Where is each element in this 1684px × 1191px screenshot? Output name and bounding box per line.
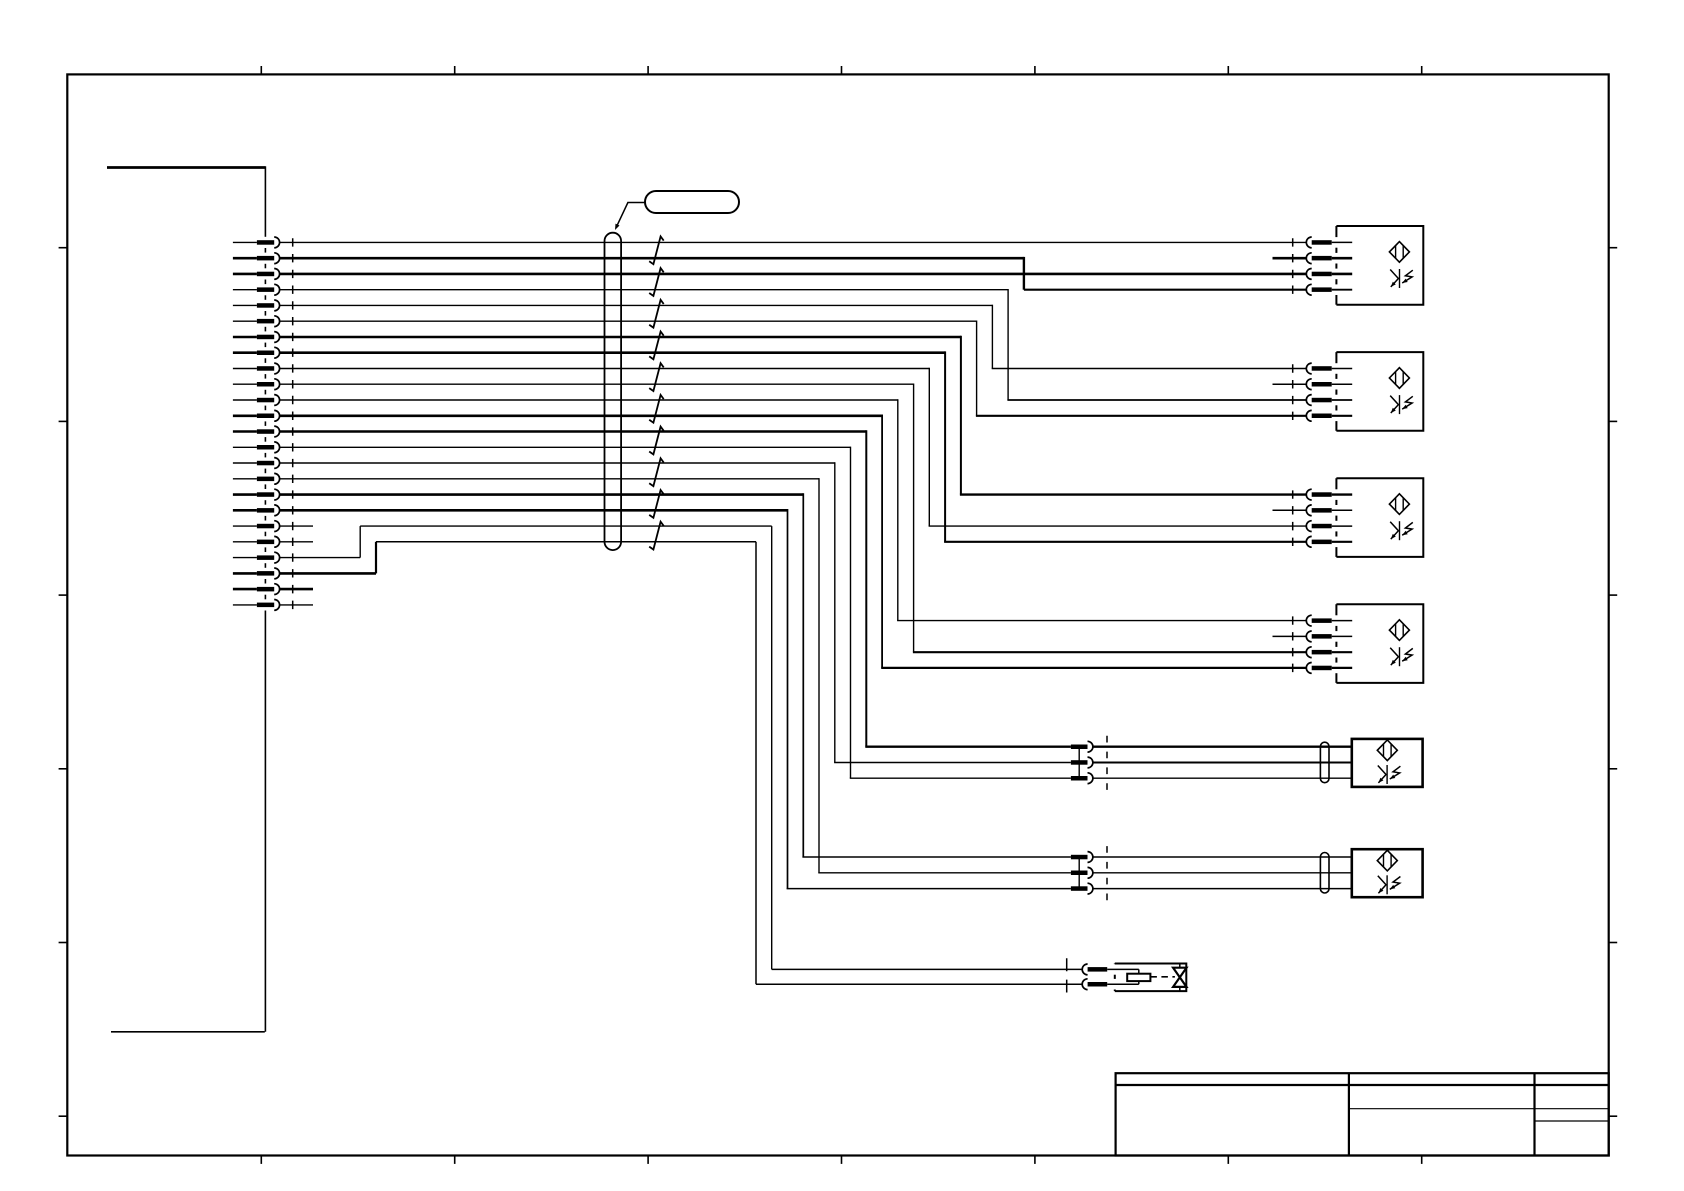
sensor B3 photoelectric receiver symbol xyxy=(1390,521,1413,540)
wire W3 J1.3 to B1.3 xyxy=(280,273,1307,276)
sensor B2 photoelectric receiver symbol xyxy=(1390,395,1413,414)
sensor B1 box outline xyxy=(1336,226,1423,305)
sensor B2 box left edge xyxy=(1335,352,1337,431)
sensor B1 proximity diamond symbol xyxy=(1389,242,1409,263)
wire W10 J1.10 to B4.3 xyxy=(280,384,1307,653)
inline connector B5 pin 2 terminal xyxy=(1071,757,1093,768)
wire W18 J1.18 to B6.3 xyxy=(280,509,1352,889)
wire W12 J1.12 to B4.4 xyxy=(280,415,1307,668)
inline connector B6 mating face dashed line xyxy=(1106,846,1108,903)
wire W13 J1.13 to B5.1 xyxy=(280,430,1352,747)
sensor B4 pin 4 terminal xyxy=(1306,663,1352,674)
connector J1 pin 9 terminal xyxy=(233,363,280,374)
valve Y1 box left edge xyxy=(1114,964,1116,992)
sensor B6 box outline xyxy=(1352,849,1423,897)
valve Y1 pin 1 terminal xyxy=(1082,964,1107,975)
inline connector B6 pin 3 terminal xyxy=(1071,883,1093,894)
sensor B2 pin 4 terminal xyxy=(1306,410,1352,421)
wire W1 J1.1 to B1.1 xyxy=(280,241,1307,243)
inline connector B6 pin 2 terminal xyxy=(1071,867,1093,878)
sensor B3 pin 2 stub wire xyxy=(1273,509,1307,511)
inline connector B5 mating face dashed line xyxy=(1106,736,1108,793)
balloon leader arrowhead xyxy=(615,224,620,230)
label balloon xyxy=(645,191,739,213)
connector J1 mating face dashed line xyxy=(292,238,294,609)
connector J1 pin 14 terminal xyxy=(233,442,280,453)
wire stub J1.24 xyxy=(280,604,313,606)
sensor B2 proximity diamond symbol xyxy=(1389,368,1409,389)
sensor B3 box left edge xyxy=(1335,478,1337,557)
wire W2 J1.2 to B1.4 xyxy=(280,257,1307,290)
sensor B4 pin 2 terminal xyxy=(1306,631,1352,642)
sensor B4 pin 3 terminal xyxy=(1306,647,1352,658)
valve Y1 coil body xyxy=(1127,974,1150,981)
valve Y1 pin 2 internal wire xyxy=(1107,983,1139,985)
sensor B1 pin 4 terminal xyxy=(1306,284,1352,295)
connector J1 pin 3 terminal xyxy=(233,269,280,280)
valve Y1 pin 1 internal wire xyxy=(1107,968,1139,970)
sensor B5 proximity diamond symbol xyxy=(1377,740,1397,761)
connector J1 pin 6 terminal xyxy=(233,316,280,327)
connector J1 pin 23 terminal xyxy=(233,584,280,595)
sensor B1 pin 1 terminal xyxy=(1306,237,1352,248)
wire W6 J1.6 to B2.4 xyxy=(280,321,1307,416)
connector J1 body right edge xyxy=(264,166,266,1032)
connector J1 body top edge xyxy=(107,166,265,169)
inline connector B6 pin 1 terminal xyxy=(1071,852,1093,863)
title block xyxy=(1116,1073,1609,1155)
connector J1 pin 2 terminal xyxy=(233,253,280,264)
wire W9 J1.9 to B3.3 xyxy=(280,368,1307,526)
cable loom oval xyxy=(605,233,622,550)
sensor B1 connector dashed line xyxy=(1292,238,1294,294)
sensor B2 connector dashed line xyxy=(1292,364,1294,420)
sensor B3 proximity diamond symbol xyxy=(1389,494,1409,515)
connector J1 body bottom edge xyxy=(111,1031,265,1033)
sensor B3 connector dashed line xyxy=(1292,490,1294,546)
connector J1 pin 11 terminal xyxy=(233,395,280,406)
inline connector B5 pin 1 terminal xyxy=(1071,741,1093,752)
sensor B2 pin 3 terminal xyxy=(1306,395,1352,406)
sensor B5 photoelectric receiver symbol xyxy=(1378,765,1401,784)
sensor B6 cable grommet oval xyxy=(1320,853,1329,894)
connector J1 pin 8 terminal xyxy=(233,347,280,358)
sensor B4 box left edge xyxy=(1335,604,1337,683)
inline connector B5 joining line xyxy=(1078,747,1080,779)
sensor B1 pin 3 terminal xyxy=(1306,269,1352,280)
sensor B1 pin 2 stub wire xyxy=(1273,257,1307,260)
connector J1 pin 16 terminal xyxy=(233,473,280,484)
wire W4 J1.4 to B2.3 xyxy=(280,289,1307,400)
connector J1 pin 24 terminal xyxy=(233,600,280,611)
sensor B4 photoelectric receiver symbol xyxy=(1390,647,1413,666)
connector J1 pin 20 terminal xyxy=(233,536,280,547)
wire group slash marks at loom exit xyxy=(649,236,664,549)
connector J1 pin 13 terminal xyxy=(233,426,280,437)
sensor B1 pin 2 terminal xyxy=(1306,253,1352,264)
sensor B5 box outline xyxy=(1352,739,1423,787)
valve Y1 coil loop vertical xyxy=(1138,969,1140,984)
connector J1 pin 5 terminal xyxy=(233,300,280,311)
frame zone tick marks left edge xyxy=(59,248,68,1116)
sensor B1 box left edge xyxy=(1335,226,1337,305)
valve Y1 actuation dashed link xyxy=(1150,976,1175,978)
frame zone tick marks right edge xyxy=(1609,248,1618,1116)
sensor B2 pin 1 terminal xyxy=(1306,363,1352,374)
balloon leader line xyxy=(616,203,645,227)
wire W16 J1.16 to B6.2 xyxy=(280,478,1352,873)
sensor B4 connector dashed line xyxy=(1292,616,1294,672)
sensor B3 pin 1 terminal xyxy=(1306,489,1352,500)
sensor B6 photoelectric receiver symbol xyxy=(1378,875,1401,894)
inline connector B6 joining line xyxy=(1078,857,1080,889)
frame zone tick marks top edge xyxy=(261,66,1421,74)
connector J1 pin 17 terminal xyxy=(233,489,280,500)
sensor B3 pin 3 terminal xyxy=(1306,521,1352,532)
connector J1 pin 21 terminal xyxy=(233,552,280,563)
wire W22 J1.22 to valve Y1.2 xyxy=(280,542,1082,984)
sensor B5 cable grommet oval xyxy=(1320,742,1329,783)
wire W5 J1.5 to B2.1 xyxy=(280,305,1307,369)
sensor B4 box outline xyxy=(1336,604,1423,683)
wire W8 J1.8 to B3.4 xyxy=(280,351,1307,541)
connector J1 pin 15 terminal xyxy=(233,458,280,469)
sensor B1 photoelectric receiver symbol xyxy=(1390,269,1413,288)
wire W14 J1.14 to B5.3 xyxy=(280,447,1352,779)
wire W15 J1.15 to B5.2 xyxy=(280,462,1352,762)
sensor B3 box outline xyxy=(1336,478,1423,557)
sensor B2 pin 2 terminal xyxy=(1306,379,1352,390)
connector J1 pin 4 terminal xyxy=(233,284,280,295)
sensor B4 pin 1 terminal xyxy=(1306,615,1352,626)
connector J1 pin 12 terminal xyxy=(233,410,280,421)
wire stub J1.19 xyxy=(280,525,313,527)
valve Y1 valve hourglass symbol xyxy=(1173,964,1186,992)
valve Y1 connector dashed line xyxy=(1066,958,1068,993)
connector J1 pin 18 terminal xyxy=(233,505,280,516)
connector J1 pin 7 terminal xyxy=(233,332,280,343)
connector J1 pin 10 terminal xyxy=(233,379,280,390)
sensor B3 pin 4 terminal xyxy=(1306,536,1352,547)
valve Y1 box outline xyxy=(1115,964,1187,992)
sensor B2 pin 2 stub wire xyxy=(1273,383,1307,385)
sensor B6 proximity diamond symbol xyxy=(1377,850,1397,871)
sensor B4 proximity diamond symbol xyxy=(1389,620,1409,641)
connector J1 pin 22 terminal xyxy=(233,568,280,579)
sensor B2 box outline xyxy=(1336,352,1423,431)
wire W21 J1.21 to valve Y1.1 xyxy=(280,526,1082,969)
wire stub J1.23 xyxy=(280,588,313,591)
wire W17 J1.17 to B6.1 xyxy=(280,493,1352,857)
wire W7 J1.7 to B3.1 xyxy=(280,336,1307,495)
wire stub J1.20 xyxy=(280,541,313,543)
wire W11 J1.11 to B4.1 xyxy=(280,399,1307,620)
sensor B3 pin 2 terminal xyxy=(1306,505,1352,516)
connector J1 pin 19 terminal xyxy=(233,521,280,532)
frame zone tick marks bottom edge xyxy=(261,1156,1421,1164)
inline connector B5 pin 3 terminal xyxy=(1071,773,1093,784)
valve Y1 pin 2 terminal xyxy=(1082,979,1107,990)
sensor B4 pin 2 stub wire xyxy=(1273,635,1307,637)
connector J1 pin 1 terminal xyxy=(233,237,280,248)
